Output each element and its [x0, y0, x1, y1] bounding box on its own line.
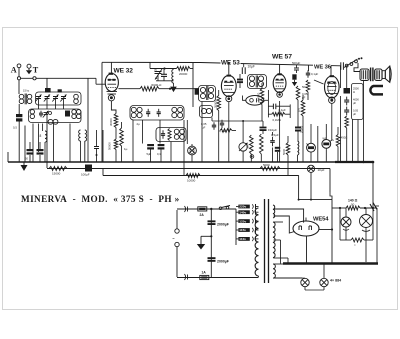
lamp dial 1: [307, 143, 316, 152]
box IF can A: [130, 106, 184, 121]
capacitor C7 blob: [37, 149, 44, 151]
svg-text:110v: 110v: [239, 237, 246, 241]
capacitor blobA: [147, 144, 154, 146]
wire we36 down: [331, 104, 333, 141]
wire top mid: [149, 62, 151, 68]
wire bus3 left drop: [102, 169, 104, 176]
wire filter row: [332, 207, 346, 209]
capacitor sw: [340, 62, 342, 70]
wire lamps down: [310, 152, 312, 162]
tuning indicator small: [188, 146, 197, 155]
node bus end: [372, 161, 375, 164]
svg-text:0,05: 0,05: [353, 109, 359, 113]
wire x88 col: [87, 90, 89, 130]
wire selector rail: [235, 209, 237, 245]
coil mid field: [298, 141, 299, 155]
svg-text:~: ~: [172, 236, 175, 241]
resistor R 5000 bus2: [260, 167, 280, 171]
ground chassis left: [23, 162, 25, 165]
resistor 450: [336, 135, 340, 147]
svg-text:10000: 10000: [187, 179, 196, 183]
capacitor C6 blob: [27, 149, 34, 151]
potentiometer volume: [239, 143, 247, 151]
svg-text:MINERVA - MOD. « 375 S -: MINERVA - MOD. « 375 S - PH »: [21, 194, 180, 204]
resistor bias2: [120, 128, 124, 146]
svg-text:WE 32: WE 32: [114, 68, 134, 75]
wire drop 330: [329, 169, 331, 193]
svg-text:500: 500: [302, 85, 307, 89]
svg-text:µF: µF: [353, 101, 356, 105]
capacitor 0,1uF det: [221, 120, 223, 124]
wire bus2: [47, 168, 330, 170]
wire we36 grid: [314, 80, 324, 84]
tube WE32: [105, 74, 118, 92]
coil L1b: [74, 94, 79, 99]
wire drop330b: [330, 192, 332, 200]
wire blob drops: [150, 150, 152, 163]
coil RF choke: [45, 131, 47, 142]
ground psu: [201, 235, 211, 237]
capacitor can 2: [360, 215, 373, 228]
wire 05m down: [261, 105, 263, 122]
wire WE57 down: [279, 101, 281, 162]
svg-text:4× 884: 4× 884: [330, 279, 341, 283]
svg-text:0,5: 0,5: [297, 108, 301, 112]
coil L3: [48, 119, 53, 124]
capacitor 2000uF a: [208, 220, 216, 222]
resistor R 15000: [49, 167, 67, 171]
wire top mid right: [190, 68, 193, 70]
svg-text:4000: 4000: [353, 98, 359, 102]
svg-text:50000: 50000: [108, 142, 112, 150]
wire bus3: [103, 175, 299, 177]
resistor det h: [220, 129, 232, 133]
capacitor 0,1 we57: [267, 90, 269, 117]
switch mains: [219, 207, 222, 210]
svg-text:0,1MΩ: 0,1MΩ: [273, 118, 281, 122]
coil det: [201, 108, 206, 113]
capacitor 4000uF: [346, 97, 348, 101]
lamp dial 2: [322, 140, 331, 149]
coil IFA2: [172, 107, 177, 112]
wire WE53 top: [228, 63, 230, 74]
resistor plate 5000: [140, 87, 159, 91]
wire sec fil leads: [274, 263, 284, 265]
voltage tap 110v: [236, 238, 238, 240]
wire right col: [346, 128, 348, 162]
capacitor avc arrow: [292, 74, 296, 79]
wire chassis left tick: [7, 152, 9, 162]
wire pot down: [242, 151, 244, 162]
wire af link: [211, 118, 213, 122]
wire drop 296: [298, 175, 300, 199]
svg-text:500µF: 500µF: [292, 61, 300, 65]
wire y65 to col: [308, 65, 310, 71]
switch contact small: [49, 112, 52, 115]
wire IF2 core: [255, 76, 257, 88]
wire ti: [191, 155, 193, 162]
resistor R 10000: [186, 174, 200, 178]
wire r20k down: [218, 111, 220, 163]
wire c6 leads: [29, 142, 31, 149]
voltage tap 140v: [236, 211, 238, 213]
resistor mid 5000: [286, 143, 290, 156]
connector bottom: [185, 274, 186, 280]
svg-text:≡10µF: ≡10µF: [268, 128, 277, 132]
wire left block down x47: [46, 113, 48, 169]
resistor IFB r: [168, 129, 171, 141]
capacitor 100uF blob: [85, 165, 92, 172]
wire IF1 down: [201, 102, 203, 163]
svg-text:100µF: 100µF: [81, 173, 90, 177]
tube detector diode: [246, 96, 264, 106]
capacitor coupling blob: [195, 88, 199, 95]
ground mid: [173, 83, 175, 87]
capacitor IFB c: [162, 130, 164, 133]
capacitor det2: [213, 122, 215, 125]
capacitor 0,1 col: [307, 70, 309, 73]
label tube WE36: [313, 62, 331, 69]
wire spk down: [363, 81, 365, 163]
wire dropper: [210, 209, 212, 278]
svg-text:T: T: [33, 66, 39, 75]
box IF2: [248, 75, 267, 89]
wire hum row: [339, 208, 341, 240]
resistor mid2: [260, 134, 264, 154]
trimmer C5: [44, 112, 49, 114]
wire sec top leads: [274, 209, 304, 223]
svg-text:8: 8: [40, 134, 42, 138]
transformer secondary hv: [273, 222, 275, 258]
svg-text:1A: 1A: [202, 271, 207, 275]
wire drop 373: [372, 162, 374, 208]
svg-text:µF: µF: [302, 96, 306, 100]
transformer core: [264, 199, 266, 283]
svg-text:5000: 5000: [282, 148, 286, 155]
wire WE32 plate: [118, 88, 140, 90]
wire col302 down: [302, 116, 304, 162]
box oscillator section: [29, 109, 82, 123]
svg-text:µF: µF: [202, 126, 206, 130]
wire L4 down: [80, 141, 82, 162]
capacitor 10uF top: [241, 67, 243, 74]
wire cap ant lead: [18, 104, 20, 114]
antenna terminal A: [17, 64, 21, 68]
resistor 500 col: [306, 80, 310, 92]
wire chassis bus: [8, 161, 373, 163]
svg-text:115v: 115v: [239, 228, 246, 232]
coil choke mid: [172, 70, 174, 84]
svg-text:220v: 220v: [239, 205, 246, 209]
transformer output: [360, 69, 369, 81]
svg-text:15000: 15000: [52, 172, 61, 176]
voltage tap 115v: [236, 229, 238, 231]
wire 358 col: [357, 120, 359, 163]
resistor 50 field: [346, 206, 360, 210]
wire bus right thick: [335, 161, 373, 163]
capacitor coupling WE53: [239, 74, 241, 79]
coil IF2a: [249, 76, 254, 81]
svg-text:20000: 20000: [213, 100, 217, 108]
switch tone: [345, 64, 348, 67]
svg-text:Ω: Ω: [353, 90, 355, 94]
box band switch: [36, 92, 82, 105]
coil IF1b: [208, 87, 213, 92]
wire can leads: [345, 208, 347, 217]
wire mains top: [177, 208, 236, 210]
voltage tap 220v: [236, 206, 238, 208]
box IF can B: [156, 128, 186, 142]
wire left block down x57: [53, 124, 55, 163]
capacitor IFA c1: [147, 109, 149, 112]
wire top-left bus: [19, 77, 96, 79]
wire trimmer drops: [38, 99, 40, 109]
wire grid cap: [96, 83, 105, 85]
box speaker terminals: [352, 84, 364, 120]
svg-text:WE54: WE54: [313, 217, 329, 223]
svg-text:1µ: 1µ: [124, 147, 128, 151]
resistor right col: [345, 116, 349, 128]
node top mid: [163, 67, 165, 69]
wire left block down x25: [24, 126, 26, 163]
wire xfmr top: [354, 63, 361, 72]
wire mid caps: [277, 152, 279, 162]
wire IF1 core: [206, 86, 208, 100]
label tube WE53: [221, 58, 241, 65]
svg-text:125v: 125v: [239, 219, 246, 223]
resistor 20000 vert: [217, 96, 221, 111]
svg-text:15 kc: 15 kc: [23, 89, 30, 93]
resistor hum: [351, 238, 364, 242]
resistor 20000 top: [177, 67, 191, 71]
capacitor IFA c2: [158, 109, 160, 112]
resistor bias 50000: [114, 114, 118, 128]
capacitor blobB: [158, 144, 165, 146]
capacitor 10uF mid: [260, 127, 267, 129]
tube WE57: [273, 74, 286, 92]
box IF1: [199, 86, 216, 102]
coil IF1a: [200, 87, 205, 92]
lamp pilot 1: [301, 278, 309, 286]
wire det left 103: [102, 130, 104, 162]
svg-text:WE 36: WE 36: [314, 65, 332, 71]
wire antenna A down: [18, 68, 20, 94]
wire lamps up: [310, 124, 312, 143]
tube WE36: [325, 76, 340, 98]
capacitor mid a: [272, 137, 274, 141]
svg-text:5000-Ω: 5000-Ω: [152, 83, 163, 87]
capacitor blob top2: [58, 89, 62, 92]
wire pilots: [302, 277, 305, 279]
svg-text:20000: 20000: [179, 72, 188, 76]
capacitor padder: [40, 111, 42, 113]
fuse 1A: [200, 275, 209, 279]
svg-text:0,1µF: 0,1µF: [279, 108, 286, 112]
wire bus drop x88: [87, 78, 89, 90]
svg-text:140v: 140v: [239, 210, 246, 214]
capacitor diag: [370, 204, 374, 211]
trimmer C1: [36, 96, 41, 98]
wire mid2 down: [260, 154, 262, 162]
speaker: [382, 71, 385, 79]
wire 352 col: [352, 120, 354, 163]
capacitor osc blob: [65, 111, 70, 117]
coil L2 oscillator: [30, 110, 34, 114]
wire gnd mid link: [157, 75, 159, 81]
transformer secondary top: [273, 205, 275, 218]
svg-text:30000: 30000: [109, 118, 113, 126]
wire IF A drops: [132, 120, 134, 162]
svg-text:2500: 2500: [353, 87, 359, 91]
tube WE53: [221, 75, 236, 96]
coil L1 antenna: [19, 94, 24, 99]
trimmer C3: [53, 96, 58, 98]
node b: [33, 77, 36, 80]
wire bias down: [115, 150, 117, 163]
trimmer C4: [61, 96, 66, 98]
svg-text:50: 50: [154, 68, 158, 72]
wire 340 col: [340, 66, 342, 88]
capacitor 2500 blob: [344, 88, 351, 94]
node spk: [362, 161, 364, 163]
wire psu links: [274, 221, 284, 223]
node a: [17, 77, 20, 80]
lamp pilot 2: [320, 278, 328, 286]
pot jack: [250, 155, 254, 159]
wire left block down x70: [69, 124, 71, 163]
resistor mid1: [250, 135, 254, 154]
resistor 298 top: [296, 86, 300, 100]
wire WE57 top: [279, 65, 281, 75]
wire 296 to xfmr: [299, 199, 332, 201]
coil L2b: [72, 110, 76, 114]
svg-text:450Ω: 450Ω: [341, 136, 348, 140]
wire WE32 left drop: [101, 62, 103, 162]
wire WE53 down: [228, 102, 230, 162]
coil IFB: [174, 129, 179, 134]
wire tube down: [111, 101, 116, 114]
trimmer 50: [155, 71, 162, 73]
svg-text:10µF: 10µF: [248, 65, 255, 69]
svg-text:2000µF: 2000µF: [217, 223, 230, 227]
connector top: [185, 206, 186, 212]
wire sec hv leads: [274, 257, 289, 259]
capacitor mid blob: [275, 147, 280, 149]
capacitor blob top1: [45, 88, 51, 93]
wire diode leads: [243, 96, 246, 101]
coil L4 pair: [79, 130, 81, 141]
capacitor can 1: [341, 217, 351, 227]
capacitor 0,05uF r: [346, 107, 348, 111]
plug pin top: [175, 229, 179, 233]
wire bus drop x47: [46, 78, 48, 90]
wire prim leads: [256, 206, 259, 208]
svg-text:µF: µF: [353, 112, 356, 116]
wire chassis bottom thick: [283, 262, 378, 265]
svg-text:A: A: [11, 66, 17, 75]
capacitor det left: [96, 130, 98, 147]
transformer secondary fil: [273, 264, 275, 278]
svg-text:WE 53: WE 53: [221, 60, 240, 67]
svg-text:WE 57: WE 57: [272, 54, 292, 61]
plug pin bottom: [175, 242, 179, 246]
svg-text:50: 50: [351, 203, 355, 207]
svg-text:2A: 2A: [200, 213, 205, 217]
svg-text:0,5MΩ: 0,5MΩ: [256, 93, 260, 101]
resistor 0,1M we57: [272, 112, 285, 116]
wire mains bottom: [177, 277, 259, 279]
lamp on bus2: [307, 165, 314, 172]
voltage tap 125v: [236, 220, 238, 222]
resistor 0,5M vert: [260, 89, 264, 105]
coil IFA1: [131, 107, 136, 112]
svg-text:2000µF: 2000µF: [217, 260, 230, 264]
svg-text:2M: 2M: [245, 143, 249, 148]
capacitor C ant: [16, 114, 22, 117]
transformer primary: [255, 208, 258, 276]
box det: [200, 106, 213, 118]
resistor 05M col: [301, 100, 305, 116]
wire WE32 top bus: [102, 62, 341, 66]
svg-text:10µF: 10µF: [318, 168, 325, 172]
capacitor 298: [295, 127, 301, 129]
tube WE54 rectifier: [293, 221, 319, 236]
svg-text:5000: 5000: [263, 163, 270, 167]
wire plate to IF1: [159, 88, 199, 90]
earth terminal T: [27, 64, 31, 68]
coil IF2b: [258, 76, 263, 81]
trimmer C2: [45, 96, 50, 98]
magnet: [370, 86, 383, 94]
wire we54 drop: [306, 237, 308, 264]
wire we54 leads: [319, 229, 333, 231]
svg-text:0,1µF: 0,1µF: [311, 72, 318, 76]
svg-text:2µ: 2µ: [137, 122, 141, 126]
svg-text:0,5: 0,5: [13, 126, 17, 130]
wire mid3: [297, 155, 299, 162]
fuse 2A: [198, 207, 207, 211]
capacitor fixed: [163, 69, 165, 75]
capacitor 2000uF b: [208, 257, 216, 259]
